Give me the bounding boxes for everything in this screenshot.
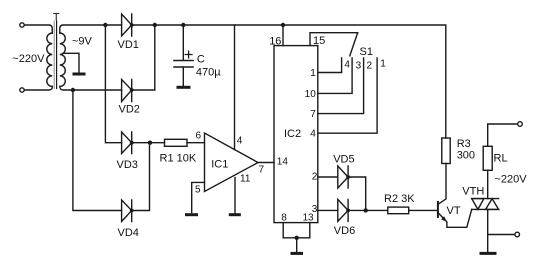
terminal output top-right — [518, 122, 523, 127]
wire primary top lead — [24, 25, 52, 33]
ground capacitor — [178, 86, 189, 89]
node VD3 VD4 junction — [148, 141, 152, 145]
wire IC1 pin11 — [234, 178, 236, 214]
svg-text:5: 5 — [195, 185, 201, 196]
transistor VT base bar — [437, 202, 439, 217]
svg-text:8: 8 — [281, 212, 287, 223]
wire R2 to VT base — [409, 209, 438, 211]
terminal output bottom-right — [515, 232, 520, 237]
wire VD2 cathode to rail — [132, 25, 155, 90]
triac VTH bottom line — [472, 208, 499, 210]
node VD1 cathode — [130, 23, 134, 27]
wire riser to VD3 — [105, 25, 121, 143]
resistor RL — [483, 146, 492, 170]
switch S1 contact wire 2 to pin7 — [318, 58, 364, 114]
diode VD2 — [122, 80, 132, 102]
svg-text:470µ: 470µ — [196, 67, 221, 79]
ground IC1 pin11 — [230, 213, 239, 216]
node VD5 cathode — [346, 175, 350, 179]
wire VD4 cathode up to junction — [132, 143, 150, 211]
node VD6 cathode — [346, 209, 350, 213]
wire secondary bottom lead — [60, 87, 122, 91]
wire VD3 cathode to junction — [132, 142, 150, 144]
capacitor C plates — [174, 61, 193, 68]
wire secondary top lead to rail — [60, 25, 122, 33]
svg-text:IC2: IC2 — [284, 128, 301, 140]
diode VD4 — [122, 200, 132, 222]
wire RL branch — [488, 124, 518, 146]
diode VD1 — [122, 14, 132, 36]
wire cap to ground — [182, 67, 184, 86]
wire IC1 output to IC2 pin14 — [258, 162, 274, 164]
svg-text:6: 6 — [196, 130, 202, 141]
ground IC1 pin5 — [187, 213, 197, 216]
svg-text:VTH: VTH — [462, 186, 484, 198]
wire VD6 to R2 — [348, 209, 388, 211]
switch S1 contact wire 3 to pin10 — [318, 58, 352, 93]
svg-text:VD2: VD2 — [119, 104, 140, 116]
capacitor C plus sign — [185, 51, 192, 58]
node rail pin16 — [281, 23, 285, 27]
node VD3 cathode — [130, 141, 134, 145]
transformer T secondary winding — [60, 33, 66, 86]
svg-text:2: 2 — [312, 172, 318, 183]
wire riser to VD4 — [73, 90, 122, 211]
svg-text:VD3: VD3 — [117, 159, 138, 171]
wire secondary center tap — [63, 53, 79, 72]
svg-text:10: 10 — [305, 89, 317, 100]
svg-text:300: 300 — [457, 150, 475, 162]
transistor VT emitter — [438, 209, 471, 227]
node VD5 VD6 junction — [364, 208, 368, 212]
svg-text:1: 1 — [310, 68, 316, 79]
node rail x155 — [153, 23, 157, 27]
IC2 box — [274, 46, 318, 223]
resistor R2 — [388, 207, 409, 214]
svg-text:RL: RL — [494, 153, 508, 165]
wire RL to triac — [487, 170, 489, 198]
svg-text:7: 7 — [310, 109, 316, 120]
ground center tap — [74, 73, 84, 76]
triac VTH right triangle — [486, 199, 499, 210]
svg-text:VD6: VD6 — [334, 225, 355, 237]
svg-text:S1: S1 — [360, 46, 373, 58]
svg-text:R2 3K: R2 3K — [384, 193, 415, 205]
terminal input bottom-left — [20, 88, 24, 92]
svg-text:~220V: ~220V — [495, 173, 528, 185]
svg-text:2: 2 — [367, 60, 373, 71]
transistor VT emitter arrow — [441, 216, 447, 222]
diode VD3 — [122, 132, 132, 154]
wire IC2 pin3 to VD6 — [318, 209, 338, 211]
wire IC2 pin8 pin13 to ground — [283, 223, 310, 252]
svg-text:R3: R3 — [457, 138, 471, 150]
node rail x105 — [103, 23, 107, 27]
svg-text:R1 10K: R1 10K — [160, 153, 197, 165]
svg-text:~220V: ~220V — [12, 53, 45, 65]
capacitor C top wire — [182, 25, 184, 60]
ground IC2 — [292, 252, 302, 255]
wire to bottom-right terminal — [488, 234, 515, 236]
svg-text:VT: VT — [447, 205, 461, 217]
wire R1 to IC1 pin6 — [187, 142, 205, 144]
triac VTH left triangle — [472, 199, 484, 210]
node VD2 cathode — [130, 88, 134, 92]
svg-text:14: 14 — [277, 157, 289, 168]
svg-text:11: 11 — [240, 174, 251, 185]
svg-text:16: 16 — [269, 36, 281, 48]
svg-text:4: 4 — [310, 129, 316, 140]
wire top rail — [132, 25, 446, 138]
resistor R1 — [165, 139, 188, 146]
terminal input top-left — [20, 23, 24, 27]
op-amp IC1 — [205, 133, 259, 192]
node rail cap — [181, 23, 185, 27]
svg-text:VD1: VD1 — [118, 39, 139, 51]
svg-text:IC1: IC1 — [211, 159, 228, 171]
svg-text:~9V: ~9V — [72, 36, 93, 48]
wire IC1 pin5 — [192, 182, 205, 212]
svg-text:1: 1 — [380, 59, 386, 70]
svg-text:4: 4 — [237, 136, 243, 147]
wire VD5 to junction — [348, 177, 366, 210]
wire primary bottom lead — [24, 87, 52, 91]
wire triac down to ground — [487, 209, 489, 252]
svg-text:3: 3 — [356, 60, 362, 71]
resistor R3 — [442, 138, 450, 164]
svg-text:T: T — [53, 11, 60, 23]
diode VD6 — [338, 199, 348, 221]
wire IC2 pin16 — [282, 25, 284, 46]
svg-text:VD4: VD4 — [118, 227, 139, 239]
svg-text:4: 4 — [344, 60, 350, 71]
svg-text:13: 13 — [302, 212, 314, 223]
svg-text:VD5: VD5 — [333, 153, 354, 165]
node secondary bottom junction — [71, 88, 75, 92]
wire junction to R1 — [150, 142, 165, 144]
svg-text:15: 15 — [313, 35, 325, 47]
transformer T core — [53, 21, 55, 89]
switch S1 arm — [350, 33, 358, 56]
diode VD5 — [338, 166, 348, 188]
wire IC2 pin2 to VD5 — [318, 176, 338, 178]
svg-text:C: C — [197, 54, 205, 66]
svg-text:7: 7 — [259, 165, 265, 176]
switch S1 contact wire 4 to pin1 — [318, 58, 342, 73]
ground triac — [481, 252, 495, 255]
node IC2 ground junction — [295, 236, 299, 240]
switch S1 contact wire 1 to pin4 — [318, 58, 377, 133]
wire R3 to VT collector — [439, 164, 446, 204]
wire IC1 pin4 to rail — [234, 25, 236, 150]
node VD4 cathode — [130, 209, 134, 213]
transformer T primary winding — [47, 33, 52, 86]
wire IC2 pin15 to switch — [310, 33, 358, 46]
triac VTH top line — [472, 198, 499, 200]
